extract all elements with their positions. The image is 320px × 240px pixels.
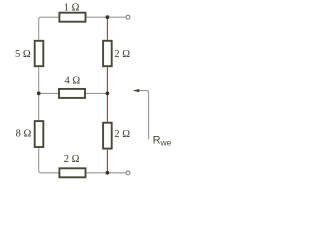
svg-text:5 Ω: 5 Ω [15,49,31,60]
svg-text:4 Ω: 4 Ω [64,75,80,86]
svg-text:2 Ω: 2 Ω [64,154,80,165]
svg-text:1 Ω: 1 Ω [64,3,80,14]
svg-text:2 Ω: 2 Ω [114,129,130,140]
svg-text:8 Ω: 8 Ω [16,129,32,140]
svg-text:2 Ω: 2 Ω [114,49,130,60]
